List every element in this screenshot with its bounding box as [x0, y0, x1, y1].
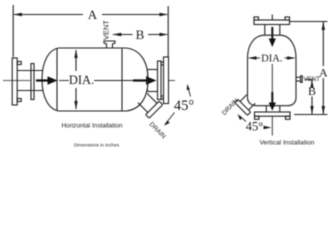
- outlet flange bolts: [161, 62, 164, 65]
- tank left seam: [56, 49, 58, 111]
- dimension B (vertical): [311, 80, 313, 85]
- vent nozzle (horizontal tank): [104, 41, 115, 48]
- 45 deg leader to drain (vertical): [240, 116, 247, 122]
- svg-text:DIA.: DIA.: [261, 54, 282, 65]
- svg-text:Horizontal Installation: Horizontal Installation: [61, 123, 123, 130]
- svg-text:DIA.: DIA.: [69, 73, 94, 87]
- svg-text:Dimensions in inches: Dimensions in inches: [74, 142, 120, 148]
- dimension A right arrowhead: [159, 13, 168, 17]
- extension line vent (vertical B): [305, 79, 314, 81]
- svg-text:DRAIN: DRAIN: [148, 121, 167, 140]
- svg-text:B: B: [136, 27, 145, 42]
- label DIA. (vertical tank): [261, 51, 284, 64]
- svg-text:VENT: VENT: [304, 76, 321, 83]
- dimension B right arrowhead: [159, 33, 168, 37]
- svg-text:B: B: [308, 84, 316, 98]
- inlet hub flange: [31, 64, 34, 100]
- svg-text:VENT: VENT: [102, 20, 111, 40]
- inlet flow arrow: [36, 76, 58, 84]
- drain nozzle (vertical tank, 45 deg): [235, 93, 258, 116]
- drain nozzle (horizontal tank, 45 deg): [136, 91, 163, 118]
- 45 deg leader to drain (horizontal): [165, 113, 175, 125]
- vent nozzle (vertical tank): [296, 76, 301, 78]
- svg-text:45°: 45°: [246, 120, 264, 134]
- extension line right (A/B): [167, 6, 169, 57]
- DIA. dimension (vertical tank): [249, 57, 260, 59]
- dimension A (horizontal) line: [14, 14, 83, 16]
- tank centerline left of DIA text: [59, 80, 70, 82]
- outlet flow arrow: [133, 76, 157, 84]
- dimension A (vertical): [322, 22, 324, 66]
- inlet flange bolts: [17, 62, 21, 65]
- inlet centerline: [3, 80, 30, 82]
- svg-text:45°: 45°: [174, 98, 195, 114]
- svg-text:A: A: [88, 7, 98, 22]
- extension line bottom (vertical A/B): [294, 114, 328, 116]
- outlet counter-flange: [164, 57, 169, 104]
- top flange plate: [254, 20, 290, 25]
- outlet down arrow (vertical tank): [271, 61, 273, 95]
- top flange center tick: [271, 15, 273, 21]
- inlet down arrow (vertical tank): [269, 27, 276, 47]
- inlet counter-flange: [12, 58, 17, 105]
- horizontal tank shell: [42, 48, 148, 111]
- outlet centerline stub: [169, 80, 175, 82]
- outlet hub flange: [158, 61, 162, 100]
- 45 deg arrow to centerline (vertical): [264, 127, 265, 129]
- extension line top (vertical A): [290, 21, 328, 23]
- dimension A left arrowhead: [13, 13, 22, 17]
- DIA. vertical dimension arrows: [75, 50, 77, 71]
- dimension B left arrowhead: [113, 33, 122, 37]
- tank right seam: [121, 48, 123, 111]
- extension line left (A): [12, 5, 14, 57]
- inlet pipe: [17, 70, 43, 72]
- outlet centerline from DIA text: [94, 80, 134, 82]
- svg-text:DRAIN: DRAIN: [221, 97, 240, 117]
- bottom flange plate: [255, 112, 291, 116]
- bottom centerline: [271, 116, 273, 135]
- top neck pipe: [264, 25, 266, 36]
- bottom outlet neck: [265, 106, 267, 112]
- 45 deg up arrow (horizontal): [188, 86, 191, 97]
- outlet nozzle pipe: [148, 69, 158, 71]
- vertical tank shell: [248, 35, 297, 106]
- dimension B line: [113, 34, 133, 36]
- svg-text:A: A: [319, 66, 328, 80]
- label DIA. (horizontal tank): [69, 72, 94, 88]
- svg-text:Vertical Installation: Vertical Installation: [260, 139, 315, 146]
